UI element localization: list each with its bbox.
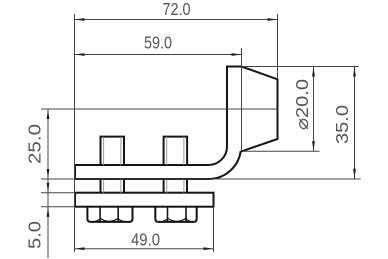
hex head left chamfer arcs xyxy=(91,218,130,222)
dimension line 35.0 xyxy=(354,67,356,179)
svg-text:⌀20.0: ⌀20.0 xyxy=(292,79,312,130)
stud right (above upper plate) xyxy=(164,137,188,165)
extension line 49.0 right xyxy=(213,207,215,252)
lower clamp plate xyxy=(75,193,214,207)
extension line left (x=74.5) xyxy=(74,14,76,252)
svg-text:59.0: 59.0 xyxy=(144,32,172,52)
hex head right chamfer arcs xyxy=(159,218,194,222)
bottom reference line y=179 xyxy=(41,178,361,180)
svg-text:49.0: 49.0 xyxy=(131,230,160,250)
hex bolt head left xyxy=(87,207,132,222)
bracket body outline (L-shaped plate with boss) xyxy=(75,67,278,180)
dimension line 25.0 xyxy=(47,109,49,179)
boss top extension line xyxy=(242,66,359,68)
dimension line 72.0 xyxy=(75,19,278,21)
stud right thread lines xyxy=(167,137,184,193)
svg-text:72.0: 72.0 xyxy=(163,0,191,19)
hex head left facet lines xyxy=(100,207,118,222)
dimension line 49.0 xyxy=(75,248,214,250)
stud right (between plates) xyxy=(164,179,187,193)
lower plate top extension xyxy=(41,192,75,194)
boss bottom extension line (dia 20) xyxy=(243,150,320,152)
extension line 59.0 (x=241.5) xyxy=(241,48,243,152)
stud left (between plates) xyxy=(101,179,125,193)
svg-text:35.0: 35.0 xyxy=(332,105,352,144)
dimension line dia20.0 xyxy=(313,67,315,152)
dimension 5.0 arrows (outside) xyxy=(47,179,49,193)
lower plate bottom extension xyxy=(41,206,75,208)
dimension line 59.0 xyxy=(75,54,242,56)
svg-text:25.0: 25.0 xyxy=(24,124,44,164)
stud left (above upper plate) xyxy=(101,137,125,165)
hex bolt head right xyxy=(155,207,196,222)
stud left thread lines xyxy=(104,137,121,193)
hex head right facet lines xyxy=(168,207,187,222)
extension line right of boss (72.0) xyxy=(277,14,279,79)
boss centerline xyxy=(41,108,278,110)
svg-text:5.0: 5.0 xyxy=(24,221,44,249)
